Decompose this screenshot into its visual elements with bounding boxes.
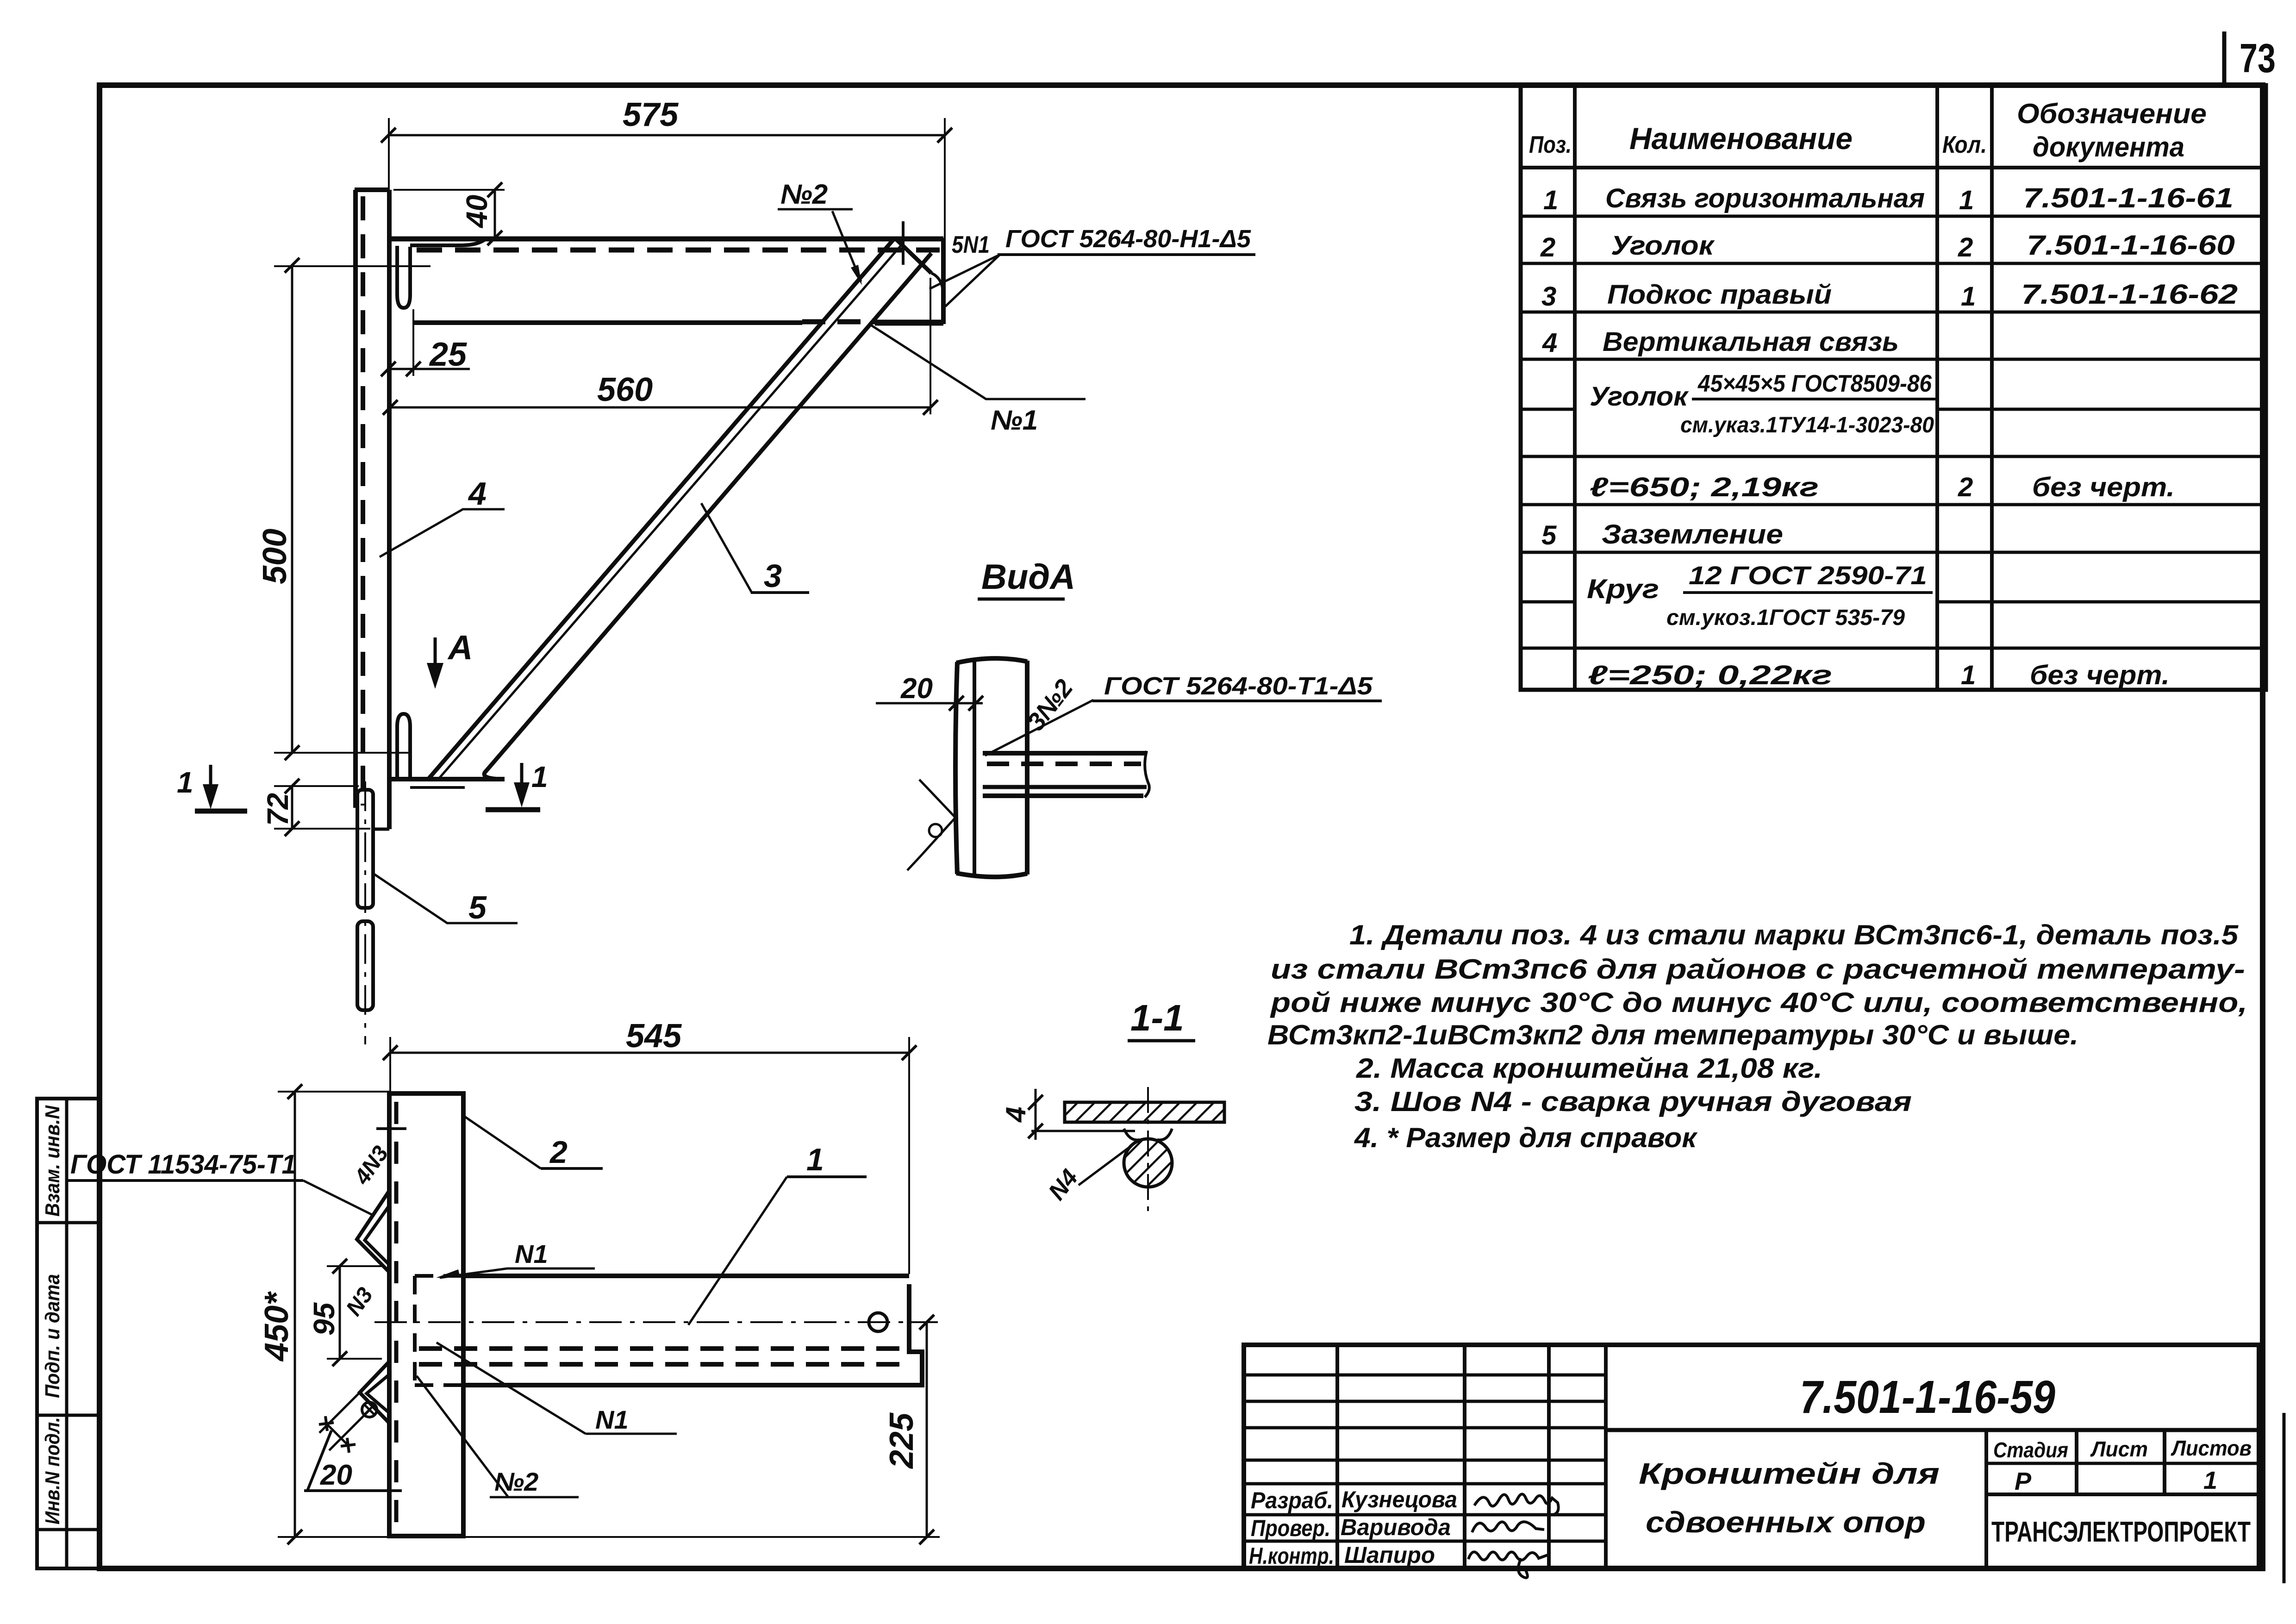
- svg-text:№2: №2: [780, 179, 828, 210]
- grounding rod poz.5 upper segment: [357, 790, 373, 908]
- dim 560 right slash: [923, 400, 938, 415]
- label N1 upper leader: [440, 1268, 507, 1278]
- svg-text:Кронштейн для: Кронштейн для: [1639, 1457, 1940, 1490]
- svg-text:ℓ=650; 2,19кг: ℓ=650; 2,19кг: [1590, 472, 1819, 502]
- bar right end cap: [941, 238, 946, 324]
- section mark 1 left bar: [195, 809, 247, 814]
- dim 4 bottom slash: [1028, 1124, 1043, 1138]
- page number tick: [2222, 31, 2227, 85]
- label 1 underline: [787, 1175, 867, 1178]
- post plate right edge: [1025, 661, 1029, 874]
- dim 500 top extension: [274, 265, 430, 267]
- top angle poz.2 horizontal leg with weld fillet: [410, 239, 485, 245]
- svg-text:Поз.: Поз.: [1529, 131, 1572, 158]
- dim 575 line: [388, 134, 945, 137]
- dim 500 bottom slash: [285, 745, 299, 760]
- signature Шапиро: [1468, 1552, 1549, 1578]
- label №2 lower leader: [417, 1376, 508, 1497]
- diagonal strut poz.3 upper edge: [428, 238, 895, 779]
- label N1 lower underline: [586, 1433, 677, 1435]
- svg-text:1: 1: [806, 1142, 824, 1177]
- signature Варивода: [1472, 1522, 1544, 1532]
- dim 95 bottom slash: [332, 1351, 347, 1366]
- dim 225 top slash: [919, 1315, 934, 1330]
- svg-text:рой ниже минус 30°С до ми: рой ниже минус 30°С до минус 40°С или, с…: [1270, 987, 2247, 1018]
- view A title underline: [978, 598, 1065, 601]
- dim 575 left extension: [388, 118, 390, 190]
- post plate left outer edge: [955, 662, 957, 874]
- row line r9 partial: [1521, 600, 1575, 604]
- lower weld chevron outer: [360, 1362, 389, 1423]
- svg-text:7.501-1-16-59: 7.501-1-16-59: [1800, 1371, 2055, 1423]
- row line r1: [1521, 215, 2266, 218]
- post plate bottom edge: [956, 873, 1027, 877]
- h line above ТРАНСЭЛЕКТРОПРОЕКТ: [1986, 1493, 2259, 1496]
- dim 72 bottom slash: [285, 821, 299, 836]
- svg-text:Подкос правый: Подкос правый: [1607, 280, 1832, 310]
- svg-text:Наименование: Наименование: [1629, 121, 1853, 156]
- dim 575 right extension: [944, 118, 946, 238]
- SEC_TITLEBLOCK: [1244, 1345, 2259, 1578]
- dim 500 top slash: [285, 258, 299, 273]
- svg-text:1: 1: [1961, 281, 1976, 312]
- strip divider vertical: [65, 1099, 69, 1568]
- SEC_SIDEVIEW: [177, 96, 1255, 1044]
- SEC_TABLE: [1521, 85, 2266, 690]
- ГОСТ 11534 underline: [66, 1179, 303, 1182]
- left rows h lines: [1244, 1374, 1606, 1377]
- dim 95 bottom extension: [327, 1358, 382, 1360]
- svg-text:см.указ.1ТУ14-1-3023-80: см.указ.1ТУ14-1-3023-80: [1680, 413, 1934, 437]
- svg-text:4: 4: [1542, 328, 1557, 358]
- SEC_SECTION11: [1000, 997, 1224, 1211]
- svg-text:ТРАНСЭЛЕКТРОПРОЕКТ: ТРАНСЭЛЕКТРОПРОЕКТ: [1991, 1516, 2251, 1548]
- svg-text:3. Шов N4 - сварка ручная д: 3. Шов N4 - сварка ручная дуговая: [1354, 1086, 1912, 1117]
- weld leader lines: [930, 255, 1000, 306]
- row line r2: [1521, 262, 2266, 265]
- dim 95 top slash: [332, 1259, 347, 1274]
- weld dim tick 1: [319, 1423, 334, 1424]
- svg-text:сдвоенных опор: сдвоенных опор: [1646, 1505, 1926, 1539]
- row line r3: [1521, 311, 2266, 314]
- svg-text:500: 500: [256, 529, 293, 584]
- label №2 leader with arrow: [832, 211, 861, 281]
- svg-text:3: 3: [764, 558, 782, 594]
- row line r4: [1521, 358, 2266, 361]
- bar bottom edge solid part: [412, 320, 802, 325]
- svg-text:без черт.: без черт.: [2032, 472, 2175, 502]
- vertical brace poz.4 left edge: [353, 190, 358, 808]
- label N4 leader: [1079, 1144, 1133, 1185]
- dim 40 line vertical: [494, 190, 496, 238]
- dim 575 right slash: [937, 128, 952, 143]
- dim 545 right extension: [908, 1037, 910, 1274]
- svg-text:Кол.: Кол.: [1942, 131, 1987, 158]
- svg-text:№1: №1: [991, 405, 1038, 436]
- svg-text:А: А: [447, 628, 473, 667]
- dim 560 line: [390, 406, 930, 409]
- svg-text:Кузнецова: Кузнецова: [1341, 1487, 1457, 1512]
- label №1 leader: [869, 324, 1086, 399]
- row line r6: [1521, 455, 2266, 458]
- post plate top edge: [956, 658, 1027, 663]
- weld text underline: [998, 253, 1255, 256]
- svg-text:4. * Размер для справок: 4. * Размер для справок: [1354, 1122, 1698, 1153]
- label 1 leader: [688, 1177, 787, 1325]
- svg-text:5N1: 5N1: [952, 231, 990, 258]
- strip divider h2: [37, 1414, 100, 1417]
- dim 545 right slash: [902, 1045, 917, 1060]
- weld bead left: [1124, 1129, 1140, 1140]
- lower weld chevron inner: [367, 1374, 389, 1413]
- column line Кол: [1990, 85, 1994, 690]
- svg-text:45×45×5 ГОСТ8509-86: 45×45×5 ГОСТ8509-86: [1697, 370, 1932, 397]
- dim 500 line vertical: [291, 265, 293, 753]
- dim 225 line vertical: [926, 1322, 928, 1537]
- bar bottom edge upper: [983, 785, 1147, 789]
- weld leader to ГОСТ: [985, 700, 1093, 756]
- dim 25 left slash: [381, 362, 396, 376]
- weld bead right: [1157, 1129, 1172, 1140]
- bar bottom edge lower: [983, 793, 1143, 798]
- weld all-around circle: [929, 824, 942, 837]
- svg-text:2: 2: [549, 1135, 568, 1170]
- parts table outline: [1521, 85, 2266, 690]
- label 5 leader: [374, 874, 518, 923]
- svg-text:2: 2: [1540, 232, 1555, 262]
- vertical brace poz.4 top edge: [355, 187, 389, 192]
- bottom angle lower parallel edge: [410, 786, 465, 789]
- bent weld leader bottom left: [907, 780, 955, 870]
- svg-text:Связь горизонтальная: Связь горизонтальная: [1605, 183, 1925, 213]
- bar top edge: [983, 751, 1147, 756]
- weld text underline: [1092, 700, 1382, 702]
- svg-text:ВСт3кп2-1иВСт3кп2 для темпер: ВСт3кп2-1иВСт3кп2 для температуры 30°С и…: [1267, 1019, 2078, 1050]
- dim 545 left slash: [383, 1045, 398, 1060]
- svg-text:Р: Р: [2015, 1468, 2032, 1495]
- grounding rod poz.5 lower segment: [357, 921, 373, 1010]
- bar hidden dashed line: [987, 762, 1141, 766]
- svg-text:ГОСТ 5264-80-Н1-Δ5: ГОСТ 5264-80-Н1-Δ5: [1005, 225, 1251, 253]
- SEC_VIDA: [876, 557, 1382, 877]
- bar hidden fold line 2: [419, 1362, 905, 1367]
- bar bottom edge solid: [463, 1383, 913, 1387]
- header bottom line: [1521, 166, 2266, 169]
- upper weld chevron outer: [357, 1191, 389, 1272]
- v line col2: [1463, 1345, 1466, 1568]
- svg-text:560: 560: [597, 371, 653, 408]
- svg-text:2. Масса кронштейна 21,08 к: 2. Масса кронштейна 21,08 кг.: [1356, 1053, 1822, 1084]
- dim 40 top slash: [487, 182, 502, 197]
- svg-text:см.укоз.1ГОСТ 535-79: см.укоз.1ГОСТ 535-79: [1666, 606, 1905, 630]
- label N1 lower leader: [437, 1343, 586, 1434]
- dim 545 line: [390, 1052, 909, 1054]
- tick crossing bar top at strut corner: [902, 221, 905, 265]
- dim 95 top extension: [327, 1265, 384, 1267]
- svg-text:20: 20: [320, 1459, 352, 1491]
- label 3 leader: [701, 503, 752, 593]
- dim 450 top extension: [278, 1091, 390, 1093]
- bar left end hidden dashed: [413, 1276, 417, 1385]
- strut inner edge thin line: [438, 244, 903, 779]
- SEC_NOTES: [1267, 919, 2247, 1153]
- svg-text:1. Детали поз. 4 из стали: 1. Детали поз. 4 из стали марки ВСт3пс6-…: [1349, 919, 2239, 950]
- dim 25 line: [388, 368, 470, 370]
- weld ext line B: [329, 1410, 369, 1450]
- dim 72 top extension: [274, 785, 359, 787]
- dim 450 bottom extension long: [278, 1536, 940, 1538]
- dim 225 bottom slash: [919, 1530, 934, 1544]
- svg-text:1: 1: [2203, 1467, 2217, 1494]
- thin line under plate: [1031, 1130, 1135, 1132]
- svg-text:из стали ВСт3пс6 для районо: из стали ВСт3пс6 для районов с расчетной…: [1271, 954, 2245, 985]
- section mark 1 left arrow: [209, 765, 212, 797]
- vertical brace poz.4 hidden dashed edge: [361, 196, 365, 806]
- row line r5 partial: [1521, 408, 1575, 411]
- view A arrow: [434, 637, 437, 677]
- svg-text:4: 4: [468, 475, 487, 512]
- svg-text:20: 20: [900, 673, 933, 705]
- svg-text:Подп. и дата: Подп. и дата: [41, 1274, 64, 1398]
- svg-text:1: 1: [1961, 660, 1976, 690]
- dim 72 bottom extension: [274, 828, 370, 830]
- dim 450 top slash: [287, 1084, 302, 1099]
- v line col4: [1604, 1345, 1608, 1568]
- dim 25 right slash: [406, 362, 421, 376]
- horizontal tie bar poz.1 top edge: [389, 237, 943, 242]
- weld dim segment: [326, 1424, 348, 1445]
- dim 95 line vertical: [339, 1266, 341, 1359]
- svg-text:документа: документа: [2033, 131, 2184, 162]
- dim 4 vertical line: [1035, 1089, 1037, 1140]
- svg-text:ВидА: ВидА: [981, 557, 1075, 597]
- dim 72 line vertical: [291, 786, 293, 829]
- dim 72 top slash: [285, 779, 299, 793]
- section mark 1 right arrow: [520, 763, 524, 795]
- svg-text:225: 225: [883, 1412, 920, 1469]
- column line Поз: [1573, 85, 1577, 690]
- rod centerline dash-dot: [364, 781, 366, 1044]
- svg-text:Обозначение: Обозначение: [2017, 98, 2207, 129]
- column outline: [389, 1093, 463, 1536]
- svg-text:72: 72: [261, 793, 294, 826]
- hole circle: [869, 1313, 887, 1331]
- svg-text:3: 3: [1541, 281, 1556, 312]
- dim 20 right slash: [968, 696, 983, 711]
- weld flag baseline: [304, 1489, 402, 1492]
- svg-text:73: 73: [2240, 35, 2276, 81]
- dim 450 line vertical: [294, 1092, 296, 1537]
- svg-text:1: 1: [531, 760, 548, 793]
- bar top edge solid: [463, 1274, 909, 1278]
- svg-text:7.501-1-16-61: 7.501-1-16-61: [2023, 182, 2234, 213]
- centerline vertical: [1147, 1087, 1149, 1211]
- label 4 leader: [380, 509, 505, 557]
- svg-text:25: 25: [429, 336, 467, 373]
- page edge artifact line: [2283, 1413, 2286, 1583]
- section mark 1 right bar: [486, 807, 540, 812]
- bar hidden dashed line below top: [417, 248, 940, 253]
- svg-text:N1: N1: [515, 1239, 548, 1268]
- svg-text:без черт.: без черт.: [2030, 660, 2170, 690]
- vertical brace poz.4 right edge: [387, 190, 392, 829]
- svg-text:5: 5: [1541, 520, 1557, 550]
- bar bottom edge hidden dashed: [415, 1383, 463, 1387]
- svg-text:Стадия: Стадия: [1993, 1438, 2068, 1462]
- weld flag slant line: [307, 1430, 331, 1491]
- svg-text:7.501-1-16-62: 7.501-1-16-62: [2021, 279, 2238, 310]
- bar bottom edge dashed part: [802, 319, 877, 325]
- svg-text:5: 5: [468, 889, 487, 925]
- small cross tick on column edge: [376, 1127, 406, 1130]
- plate section hatched: [1065, 1102, 1224, 1122]
- strut top cut face: [895, 238, 931, 273]
- upper weld chevron inner: [365, 1206, 389, 1265]
- svg-text:Провер.: Провер.: [1251, 1515, 1330, 1541]
- strip divider h3: [37, 1528, 100, 1531]
- svg-text:Взам. инв.N: Взам. инв.N: [41, 1105, 64, 1217]
- dim 40 bottom slash: [487, 231, 502, 245]
- dim 40 top extension: [393, 189, 505, 191]
- label 2 underline: [541, 1167, 603, 1170]
- title block outline: [1244, 1345, 2259, 1568]
- dim 450 bottom slash: [287, 1530, 302, 1544]
- weld dim tick 2: [341, 1444, 356, 1446]
- signature Кузнецова: [1474, 1494, 1559, 1515]
- svg-text:Уголок: Уголок: [1590, 381, 1689, 412]
- label N1 upper underline: [507, 1268, 595, 1270]
- strut lower edge with bottom fillet: [484, 253, 931, 779]
- svg-text:Уголок: Уголок: [1611, 231, 1715, 261]
- dim 20 left slash: [949, 696, 964, 711]
- row line r8: [1521, 551, 2266, 554]
- svg-text:ℓ=250; 0,22кг: ℓ=250; 0,22кг: [1588, 660, 1832, 690]
- bottom angle vertical leg J profile: [397, 714, 410, 779]
- svg-text:Шапиро: Шапиро: [1344, 1542, 1435, 1568]
- bar right end with step: [909, 1284, 922, 1385]
- svg-text:Лист: Лист: [2090, 1437, 2148, 1461]
- dim 560 left slash: [383, 400, 398, 415]
- svg-text:ГОСТ 11534-75-Т1: ГОСТ 11534-75-Т1: [70, 1149, 296, 1180]
- v line right section: [1984, 1430, 1988, 1568]
- bar centerline dash-dot: [374, 1321, 938, 1323]
- svg-text:Разраб.: Разраб.: [1251, 1487, 1333, 1513]
- svg-text:Заземление: Заземление: [1602, 519, 1783, 550]
- label №2 underline: [778, 208, 853, 211]
- svg-text:2: 2: [1958, 232, 1973, 262]
- vertical brace poz.4 bottom edge: [373, 828, 389, 831]
- v line Лист/Листов: [2163, 1430, 2166, 1494]
- svg-text:Листов: Листов: [2171, 1436, 2252, 1460]
- svg-text:Вертикальная связь: Вертикальная связь: [1603, 327, 1899, 357]
- svg-text:ГОСТ 5264-80-Т1-Δ5: ГОСТ 5264-80-Т1-Δ5: [1104, 672, 1373, 700]
- dim 560 right extension: [930, 278, 931, 414]
- svg-text:95: 95: [307, 1302, 341, 1336]
- svg-text:450*: 450*: [258, 1291, 295, 1362]
- dim 20 line: [876, 702, 983, 705]
- svg-text:Н.контр.: Н.контр.: [1249, 1543, 1334, 1569]
- ГОСТ 11534 leader: [303, 1181, 373, 1215]
- weld circle with cross: [362, 1402, 377, 1417]
- SEC_PLANVIEW: [66, 1018, 940, 1544]
- bar bottom right thick corner: [875, 320, 943, 326]
- svg-text:1: 1: [1959, 185, 1974, 215]
- svg-text:Круг: Круг: [1587, 574, 1659, 604]
- h line under doc number: [1606, 1428, 2259, 1432]
- label 2 leader: [463, 1116, 541, 1168]
- svg-text:Инв.N подл.: Инв.N подл.: [41, 1417, 64, 1524]
- svg-text:1: 1: [177, 766, 193, 799]
- svg-text:1: 1: [1543, 185, 1558, 215]
- bottom angle poz.2 horizontal edge: [389, 777, 505, 781]
- svg-text:4: 4: [1000, 1107, 1031, 1123]
- h line under Стадия header: [1986, 1462, 2259, 1465]
- weld ext line A: [319, 1393, 360, 1433]
- round bar section hatched: [1124, 1139, 1172, 1187]
- dim 4 top slash: [1028, 1095, 1043, 1110]
- column line Наименование: [1935, 85, 1939, 690]
- svg-text:545: 545: [626, 1018, 682, 1055]
- svg-text:1-1: 1-1: [1130, 997, 1184, 1038]
- v line col1: [1335, 1345, 1339, 1568]
- label №2 lower underline: [490, 1496, 579, 1499]
- svg-text:575: 575: [623, 96, 679, 133]
- label 3 underline: [751, 591, 809, 594]
- bar top edge hidden dashed: [415, 1274, 463, 1278]
- svg-text:2: 2: [1958, 472, 1973, 502]
- dim 25 extension: [412, 309, 414, 376]
- svg-text:12 ГОСТ 2590-71: 12 ГОСТ 2590-71: [1689, 561, 1927, 590]
- dim 575 left slash: [381, 128, 396, 143]
- left margin strip box: [37, 1099, 100, 1568]
- dim 545 left extension: [389, 1037, 391, 1093]
- row line r10: [1521, 647, 2266, 650]
- bar right break line: [1145, 751, 1149, 797]
- svg-text:Варивода: Варивода: [1341, 1514, 1451, 1540]
- top angle poz.2 vertical leg J profile: [397, 246, 410, 308]
- hidden dashed line inside column: [394, 1102, 399, 1532]
- svg-text:40: 40: [460, 195, 493, 229]
- strut top weld fillet curve: [931, 273, 943, 294]
- bar hidden fold line 1: [419, 1346, 905, 1351]
- post plate inner line: [973, 662, 976, 874]
- strip divider h1: [37, 1221, 100, 1224]
- dim 500 bottom extension: [274, 752, 412, 754]
- svg-text:N1: N1: [595, 1405, 629, 1434]
- svg-text:7.501-1-16-60: 7.501-1-16-60: [2027, 230, 2235, 261]
- row line r7: [1521, 503, 2266, 506]
- section title underline: [1128, 1039, 1195, 1043]
- v line col3: [1547, 1345, 1551, 1568]
- v line Стадия/Лист: [2075, 1430, 2078, 1494]
- svg-text:№2: №2: [494, 1467, 538, 1496]
